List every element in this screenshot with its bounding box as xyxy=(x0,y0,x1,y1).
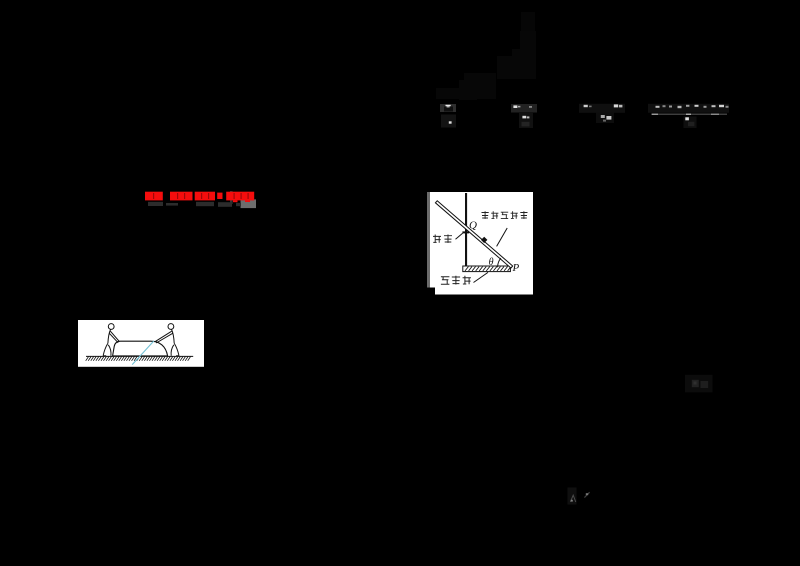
white figure box xyxy=(427,192,533,295)
black corner blotch xyxy=(427,288,435,295)
diagram: iron stand with smooth long plank xyxy=(427,192,533,295)
rounded heavy object (sofa/slab) xyxy=(113,341,168,356)
svg-text:Q: Q xyxy=(469,219,477,231)
small black diamond block on plank xyxy=(481,237,487,243)
svg-text:θ: θ xyxy=(489,257,494,268)
pointer line to crossbar xyxy=(456,233,463,239)
faint equation fragment 3 xyxy=(579,104,625,123)
angle theta arc at P xyxy=(498,258,501,267)
faint tick/check mark lower middle xyxy=(568,488,590,505)
hatched base bar of stand xyxy=(463,266,511,272)
ghost block cluster top xyxy=(436,12,536,100)
label guanghua chang pingban (smooth long plank) xyxy=(482,211,528,219)
label hengan (crossbar) xyxy=(433,235,452,243)
faint equation fragment 1 xyxy=(440,104,456,128)
pointer line to plank xyxy=(497,228,508,246)
pointer line to base xyxy=(474,272,489,282)
diagram: two people lifting a heavy rounded object xyxy=(78,320,204,367)
inclined smooth plank (double-line) xyxy=(435,201,512,268)
ground hatching xyxy=(86,357,191,361)
red bold heading text blocks xyxy=(145,191,256,208)
right person xyxy=(155,324,179,356)
svg-text:P: P xyxy=(512,262,520,274)
label tiejiatai (iron stand) xyxy=(441,276,471,285)
vertical stand pole xyxy=(465,193,467,266)
faint equation fragment 4 xyxy=(648,104,729,128)
faint grey stamp right middle xyxy=(685,375,713,393)
cyan guide line xyxy=(132,341,154,365)
ground line xyxy=(86,355,193,357)
left person xyxy=(103,324,119,356)
grey scan strip on left edge xyxy=(427,192,430,288)
crossbar (heng gan) on pole xyxy=(462,231,469,233)
dim grey caption under red text xyxy=(148,202,241,207)
white figure box xyxy=(78,320,204,367)
faint equation fragment 2 xyxy=(511,104,537,128)
